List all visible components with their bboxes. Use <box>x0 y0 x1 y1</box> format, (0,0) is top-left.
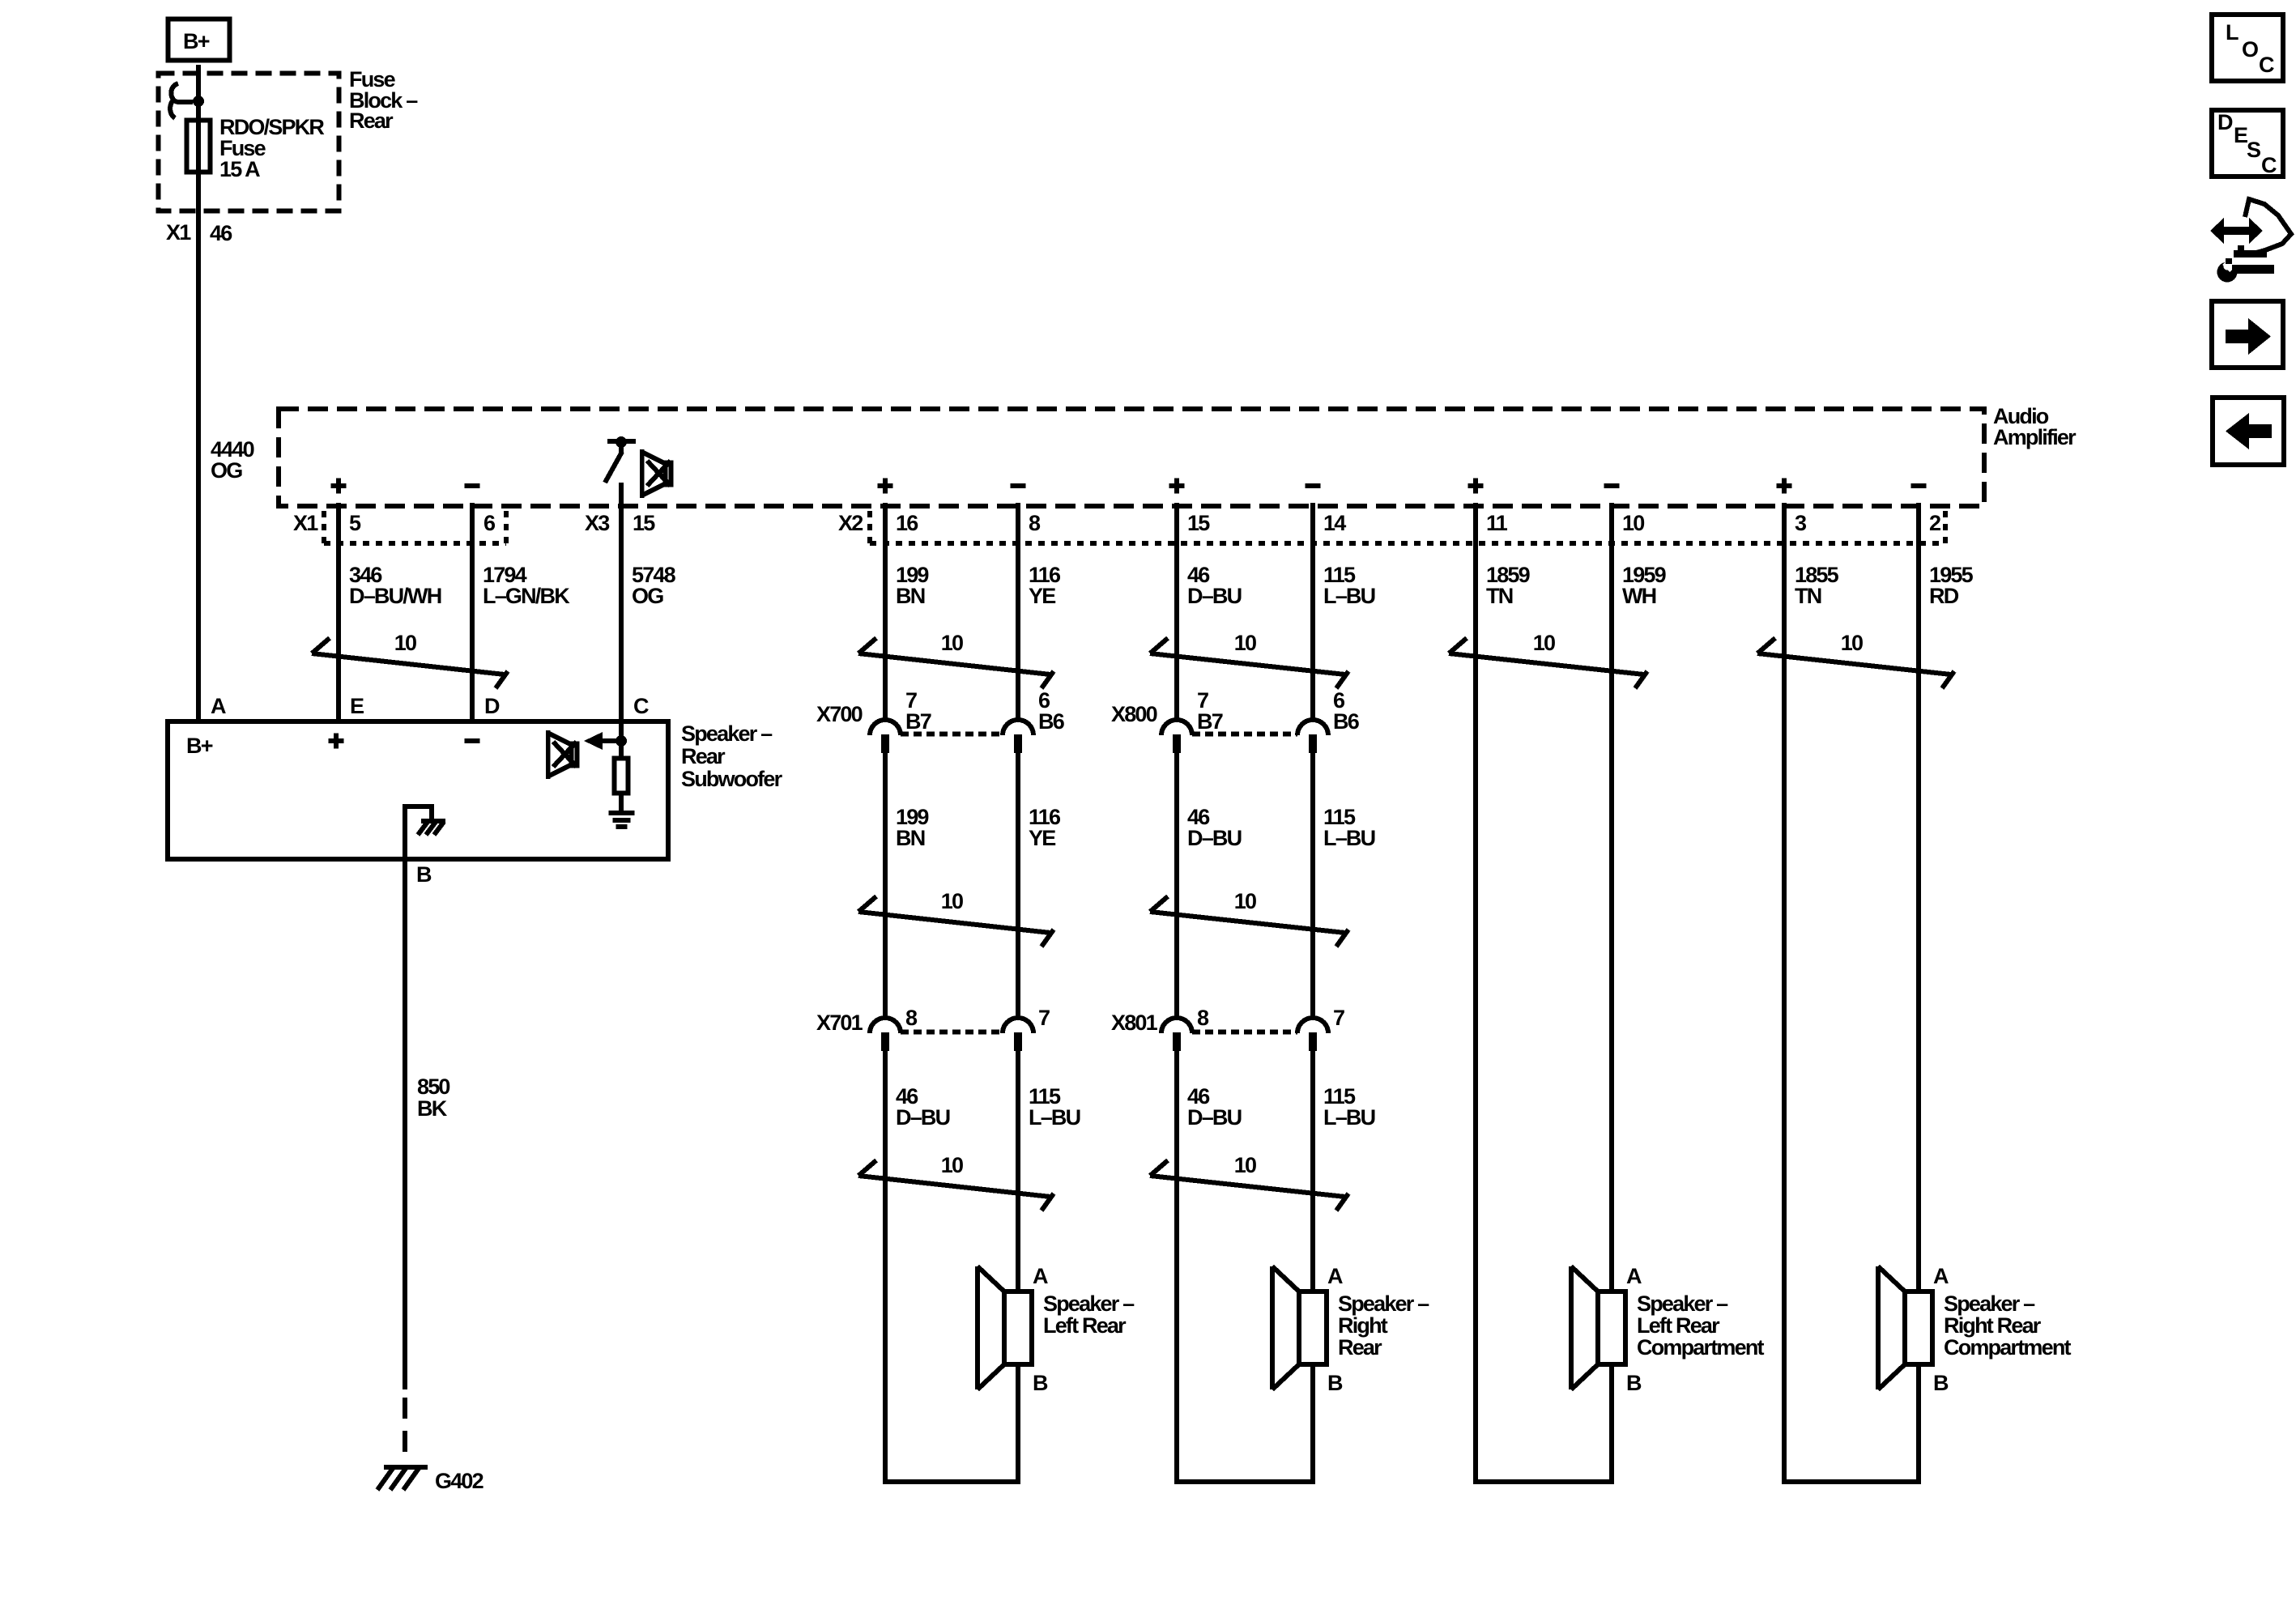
wire segment right to speaker A <box>1916 503 1921 1291</box>
wire segment 1794 L-GN/BK pin6 to D <box>470 503 475 724</box>
svg-text:Speaker –: Speaker – <box>1944 1291 2035 1316</box>
svg-text:10: 10 <box>941 1153 963 1177</box>
chassis ground symbol on wire B inside subwoofer <box>405 806 445 858</box>
svg-text:6: 6 <box>483 511 496 535</box>
svg-text:OG: OG <box>632 584 663 608</box>
svg-text:850: 850 <box>417 1074 449 1099</box>
wire bottom U joining pair <box>1784 1479 1919 1484</box>
plus polarity mark above pin 15 <box>1169 479 1185 494</box>
svg-text:Left Rear: Left Rear <box>1637 1313 1720 1338</box>
svg-text:8: 8 <box>1029 511 1041 535</box>
plus polarity mark above pin 5 <box>331 479 347 494</box>
speaker rear subwoofer box <box>168 721 668 859</box>
wire gauge 10 mark across wires at x1093-1257 row3 <box>858 1153 1054 1211</box>
wire bottom U joining pair <box>1476 1479 1612 1484</box>
speaker symbol Speaker - Left Rear Compartment <box>1571 1266 1625 1389</box>
label wire 115 L–BU <box>1323 563 1375 608</box>
svg-text:S: S <box>2247 138 2260 162</box>
svg-text:E: E <box>350 694 364 718</box>
amp internal output line with junction dot <box>605 436 636 483</box>
wire segment left mid <box>883 753 888 1019</box>
svg-text:D: D <box>2217 110 2233 134</box>
subwoofer internal plus mark <box>329 734 344 749</box>
component view icon with double arrow and wrench <box>2210 199 2291 283</box>
wire bottom U joining pair <box>1177 1479 1313 1484</box>
svg-text:G402: G402 <box>435 1469 483 1493</box>
svg-text:RD: RD <box>1929 584 1959 608</box>
svg-text:2: 2 <box>1929 511 1940 535</box>
forward arrow icon box <box>2212 301 2283 368</box>
svg-text:15: 15 <box>1187 511 1210 535</box>
plus polarity mark above pin 3 <box>1777 479 1792 494</box>
label Fuse Block - Rear <box>349 67 418 133</box>
label wire 346 D–BU/WH <box>349 563 441 608</box>
svg-text:D–BU: D–BU <box>1187 1105 1242 1130</box>
wire segment left mid <box>1174 753 1179 1019</box>
label wire 46 D–BU lower segment <box>1187 1084 1242 1130</box>
svg-text:X801: X801 <box>1111 1011 1158 1035</box>
label Speaker - Rear Subwoofer <box>681 721 783 791</box>
svg-text:A: A <box>1626 1264 1642 1288</box>
wire segment right below speaker B <box>1916 1364 1921 1484</box>
svg-text:Rear: Rear <box>1338 1335 1382 1360</box>
back arrow icon box <box>2213 398 2284 465</box>
svg-text:Right: Right <box>1338 1313 1388 1338</box>
in-line connector X701 <box>816 1006 1050 1051</box>
LOC icon box <box>2212 15 2283 81</box>
wire segment left upper <box>883 503 888 721</box>
minus polarity mark above pin 2 <box>1911 483 1927 488</box>
svg-text:L: L <box>2226 20 2238 45</box>
svg-text:BN: BN <box>896 584 925 608</box>
svg-text:TN: TN <box>1795 584 1821 608</box>
label wire 116 YE middle segment <box>1029 805 1061 850</box>
svg-text:Speaker –: Speaker – <box>1043 1291 1135 1316</box>
svg-text:X2: X2 <box>838 511 863 535</box>
svg-text:Rear: Rear <box>681 744 726 768</box>
wire segment right to speaker A <box>1609 503 1614 1291</box>
wire gauge 10 mark across wires at x1093-1257 row2 <box>858 889 1054 947</box>
label wire 1855 TN <box>1795 563 1839 608</box>
svg-text:X3: X3 <box>585 511 610 535</box>
wire segment right to speaker A <box>1016 1051 1020 1291</box>
wire 850 BK dashed section <box>403 1398 407 1464</box>
svg-text:B+: B+ <box>183 29 210 53</box>
svg-text:A: A <box>211 694 226 718</box>
svg-text:Subwoofer: Subwoofer <box>681 767 783 791</box>
svg-text:X1: X1 <box>166 220 191 245</box>
svg-text:TN: TN <box>1486 584 1513 608</box>
wire gauge 10 mark across wires at x418-583 row1 <box>312 631 508 688</box>
wire segment 346 D-BU/WH pin5 to E <box>336 503 341 724</box>
svg-text:46: 46 <box>210 221 232 245</box>
svg-text:10: 10 <box>941 889 963 913</box>
label Speaker - Right Rear <box>1338 1291 1429 1360</box>
svg-text:14: 14 <box>1323 511 1346 535</box>
svg-text:Speaker –: Speaker – <box>681 721 773 746</box>
svg-text:B7: B7 <box>905 709 931 734</box>
dotted connector bracket X1 pins 5-6 <box>324 511 506 543</box>
label wire 115 L–BU middle segment <box>1323 805 1375 850</box>
minus polarity mark above pin 10 <box>1604 483 1620 488</box>
svg-text:B7: B7 <box>1197 709 1223 734</box>
label wire 1959 WH <box>1622 563 1667 608</box>
svg-text:O: O <box>2242 37 2258 62</box>
label wire 115 L–BU lower segment <box>1029 1084 1080 1130</box>
svg-text:15: 15 <box>633 511 655 535</box>
svg-text:Compartment: Compartment <box>1637 1335 1765 1360</box>
label Speaker - Left Rear Compartment <box>1637 1291 1765 1360</box>
wire segment right mid <box>1310 753 1315 1019</box>
wire segment left lower <box>1174 1051 1179 1484</box>
svg-text:X700: X700 <box>816 702 863 726</box>
label Speaker - Right Rear Compartment <box>1944 1291 2072 1360</box>
junction dot on wire C <box>616 735 627 747</box>
svg-text:L–BU: L–BU <box>1029 1105 1080 1130</box>
svg-text:5: 5 <box>349 511 361 535</box>
svg-text:BK: BK <box>417 1096 448 1121</box>
label wire 1794 L–GN/BK <box>483 563 570 608</box>
svg-text:YE: YE <box>1029 584 1055 608</box>
svg-text:A: A <box>1933 1264 1949 1288</box>
svg-text:Rear: Rear <box>349 109 394 133</box>
wire gauge 10 mark across wires at x1453-1621 row1 <box>1150 631 1348 688</box>
wire segment left upper <box>1174 503 1179 721</box>
svg-text:B: B <box>1626 1371 1642 1395</box>
wire gauge 10 mark across wires at x2203-2369 row1 <box>1757 631 1954 688</box>
svg-text:X800: X800 <box>1111 702 1157 726</box>
svg-text:Left Rear: Left Rear <box>1043 1313 1127 1338</box>
svg-text:BN: BN <box>896 826 925 850</box>
label wire 199 BN <box>896 563 929 608</box>
svg-text:OG: OG <box>211 458 242 483</box>
wire segment left lower <box>883 1051 888 1484</box>
svg-text:YE: YE <box>1029 826 1055 850</box>
svg-text:C: C <box>2261 153 2277 177</box>
fuse block rear dashed box <box>159 74 339 211</box>
wire segment right upper <box>1310 503 1315 721</box>
svg-text:X701: X701 <box>816 1011 863 1035</box>
plus polarity mark above pin 16 <box>878 479 893 494</box>
wire segment right below speaker B <box>1310 1364 1315 1484</box>
svg-text:10: 10 <box>1234 1153 1256 1177</box>
svg-text:D–BU: D–BU <box>896 1105 950 1130</box>
fuse element curl <box>170 83 193 118</box>
svg-text:A: A <box>1327 1264 1343 1288</box>
svg-text:B: B <box>1033 1371 1048 1395</box>
label wire 116 YE <box>1029 563 1061 608</box>
svg-text:L–BU: L–BU <box>1323 584 1375 608</box>
label wire 850 BK <box>417 1074 449 1121</box>
label wire 46 D–BU lower segment <box>896 1084 950 1130</box>
svg-text:E: E <box>2234 123 2247 147</box>
wire segment 5748 OG pin15 to C <box>619 483 624 742</box>
wire gauge 10 mark across wires at x1453-1621 row3 <box>1150 1153 1348 1211</box>
svg-text:10: 10 <box>394 631 416 655</box>
svg-text:A: A <box>1033 1264 1048 1288</box>
in-line connector X801 <box>1111 1006 1344 1051</box>
svg-text:D–BU: D–BU <box>1187 826 1242 850</box>
label RDO/SPKR Fuse 15 A <box>219 115 324 181</box>
svg-text:B: B <box>1327 1371 1343 1395</box>
svg-text:16: 16 <box>896 511 918 535</box>
svg-text:10: 10 <box>1533 631 1555 655</box>
label wire 199 BN middle segment <box>896 805 929 850</box>
svg-text:11: 11 <box>1486 511 1508 535</box>
wire 850 BK ground wire <box>403 860 407 1389</box>
svg-text:B: B <box>416 862 432 887</box>
label wire 4440 OG <box>211 437 254 483</box>
in-line connector X800 <box>1111 688 1360 753</box>
label wire 1859 TN <box>1486 563 1531 608</box>
resistor element on wire C <box>615 746 628 811</box>
minus polarity mark above pin 14 <box>1306 483 1321 488</box>
wire segment left full <box>1782 503 1787 1484</box>
svg-text:8: 8 <box>905 1006 918 1030</box>
svg-text:D: D <box>484 694 500 718</box>
svg-text:10: 10 <box>1622 511 1644 535</box>
svg-text:10: 10 <box>1841 631 1863 655</box>
wire segment left full <box>1473 503 1478 1484</box>
wire segment right upper <box>1016 503 1020 721</box>
audio amplifier dashed box <box>279 409 1984 506</box>
DESC icon box <box>2212 110 2283 177</box>
power symbol B+ box <box>168 19 230 61</box>
wire segment right below speaker B <box>1016 1364 1020 1484</box>
svg-text:B: B <box>1933 1371 1949 1395</box>
svg-text:D–BU/WH: D–BU/WH <box>349 584 441 608</box>
wire 4440 OG from B+ to subwoofer pin A <box>196 65 201 724</box>
svg-text:B6: B6 <box>1038 709 1065 734</box>
subwoofer arrow to speaker <box>584 732 621 750</box>
label wire 5748 OG <box>632 563 676 608</box>
ground G402 symbol <box>377 1467 428 1490</box>
svg-text:7: 7 <box>1038 1006 1050 1030</box>
speaker symbol Speaker - Right Rear <box>1272 1266 1327 1389</box>
svg-text:C: C <box>633 694 649 718</box>
svg-text:Amplifier: Amplifier <box>1993 425 2077 449</box>
svg-text:10: 10 <box>941 631 963 655</box>
earth ground symbol inside subwoofer <box>609 813 635 827</box>
svg-text:B+: B+ <box>186 734 213 758</box>
dotted connector bracket X2 pins 16-2 <box>870 511 1945 543</box>
label Audio Amplifier <box>1993 404 2077 449</box>
plus polarity mark above pin 11 <box>1468 479 1484 494</box>
svg-text:C: C <box>2259 53 2274 77</box>
svg-text:Speaker –: Speaker – <box>1338 1291 1429 1316</box>
svg-text:Speaker –: Speaker – <box>1637 1291 1728 1316</box>
wire gauge 10 mark across wires at x1822-1990 row1 <box>1449 631 1647 688</box>
svg-text:L–BU: L–BU <box>1323 826 1375 850</box>
svg-text:Compartment: Compartment <box>1944 1335 2072 1360</box>
svg-text:15 A: 15 A <box>219 157 260 181</box>
label wire 115 L–BU lower segment <box>1323 1084 1375 1130</box>
wire gauge 10 mark across wires at x1093-1257 row1 <box>858 631 1054 688</box>
wire gauge 10 mark across wires at x1453-1621 row2 <box>1150 889 1348 947</box>
fuse RDO/SPKR 15 A body <box>187 121 211 172</box>
svg-text:3: 3 <box>1795 511 1807 535</box>
svg-text:L–GN/BK: L–GN/BK <box>483 584 570 608</box>
svg-text:B6: B6 <box>1333 709 1360 734</box>
speaker symbol Speaker - Left Rear <box>978 1266 1032 1389</box>
wire segment right mid <box>1016 753 1020 1019</box>
svg-text:10: 10 <box>1234 631 1256 655</box>
svg-text:X1: X1 <box>293 511 318 535</box>
speaker symbol Speaker - Right Rear Compartment <box>1878 1266 1932 1389</box>
subwoofer internal minus mark <box>465 738 480 743</box>
svg-text:D–BU: D–BU <box>1187 584 1242 608</box>
svg-text:Right Rear: Right Rear <box>1944 1313 2042 1338</box>
svg-text:L–BU: L–BU <box>1323 1105 1375 1130</box>
minus polarity mark above pin 8 <box>1011 483 1026 488</box>
label wire 1955 RD <box>1929 563 1974 608</box>
label Speaker - Left Rear <box>1043 1291 1135 1338</box>
junction dot at fuse top <box>193 96 204 107</box>
wire bottom U joining pair <box>885 1479 1018 1484</box>
minus polarity mark above pin 6 <box>465 483 480 488</box>
label connector X1 pin 46 <box>166 220 232 245</box>
label wire 46 D–BU middle segment <box>1187 805 1242 850</box>
svg-text:10: 10 <box>1234 889 1256 913</box>
svg-text:WH: WH <box>1622 584 1656 608</box>
wire segment right below speaker B <box>1609 1364 1614 1484</box>
label wire 46 D–BU <box>1187 563 1242 608</box>
svg-text:8: 8 <box>1197 1006 1209 1030</box>
in-line connector X700 <box>816 688 1065 753</box>
svg-text:7: 7 <box>1333 1006 1344 1030</box>
amp internal speaker symbol at X3 <box>640 449 671 498</box>
wire segment right to speaker A <box>1310 1051 1315 1291</box>
subwoofer internal speaker symbol <box>546 730 577 779</box>
